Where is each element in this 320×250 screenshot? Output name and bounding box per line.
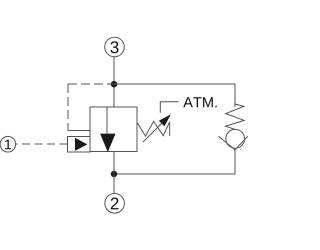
- check valve seat: [219, 136, 248, 150]
- wire: top junction to check valve (y=84): [114, 84, 235, 107]
- flow path arrow (normally closed spool): [106, 107, 108, 134]
- wire: check valve to bottom line: [114, 150, 235, 174]
- spring (main valve, angled): [137, 121, 170, 136]
- leader line to ATM label: [160, 102, 178, 113]
- pilot triangle: [75, 138, 87, 151]
- check valve ball: [226, 129, 245, 148]
- spring (check valve): [226, 104, 245, 130]
- node junction top (pilot tap): [111, 81, 117, 87]
- wire: valve body bottom to port 2: [113, 152, 115, 194]
- node junction bottom: [111, 171, 117, 177]
- port circle 1: [0, 136, 16, 152]
- pilot dashed line: junction to pilot box around left: [68, 83, 114, 85]
- wire: port 3 to valve body top: [113, 57, 115, 107]
- pilot box: [68, 137, 91, 153]
- adjustment arrow shaft: [143, 119, 166, 142]
- label ATM.: [183, 97, 217, 107]
- port circle 2: [105, 194, 125, 214]
- dashed pilot line: port 1 to pilot box: [16, 143, 68, 145]
- valve body V1: [90, 107, 137, 152]
- port circle 3: [105, 37, 125, 57]
- pilot dashed line: corner into valve body: [68, 130, 90, 132]
- adjustment arrow head: [159, 114, 171, 126]
